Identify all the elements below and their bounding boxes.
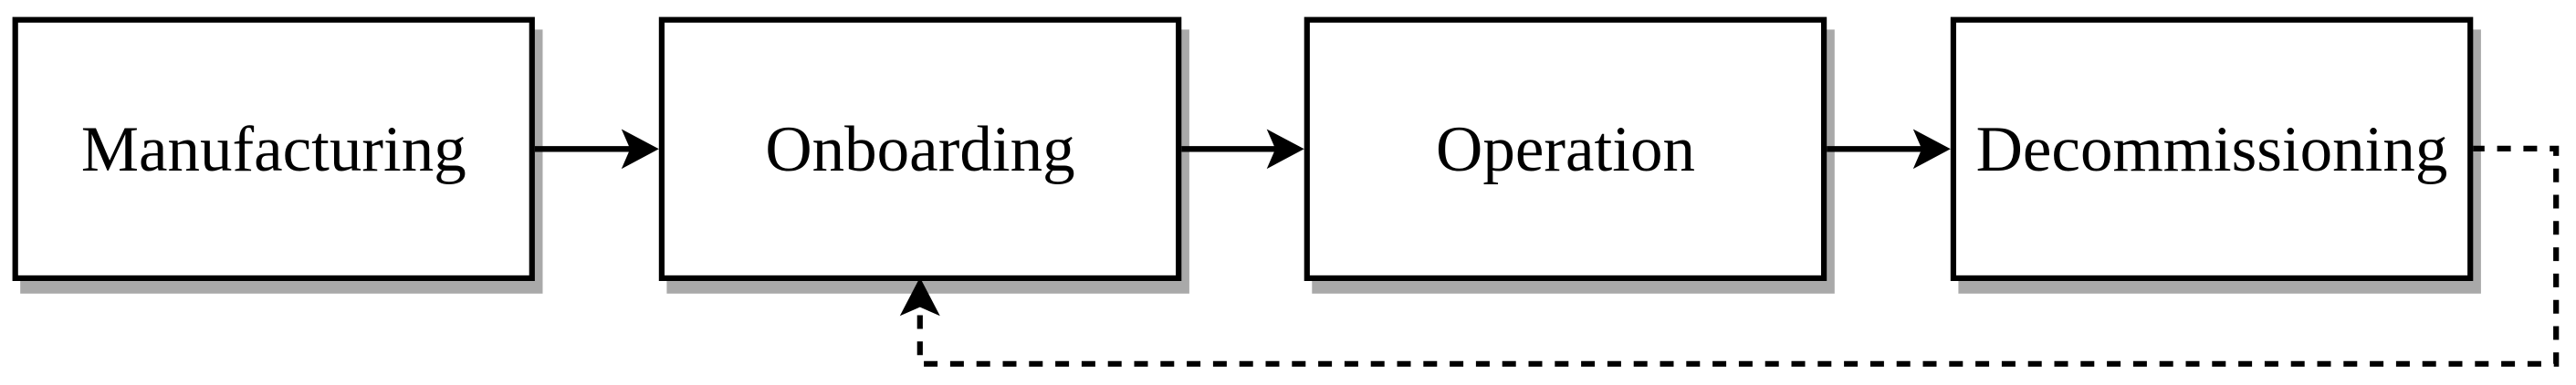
box Decommissioning	[1953, 20, 2470, 278]
box Manufacturing	[16, 20, 532, 278]
arrow Operation to Decommissioning : shaft	[1827, 146, 1935, 151]
shadow of Manufacturing box	[20, 29, 542, 293]
svg-text:Operation: Operation	[1436, 114, 1695, 185]
shadow of Decommissioning box	[1958, 29, 2481, 293]
svg-text:Manufacturing: Manufacturing	[81, 114, 466, 185]
svg-text:Onboarding: Onboarding	[765, 114, 1074, 185]
arrow Manufacturing to Onboarding : head	[622, 130, 659, 170]
arrow Manufacturing to Onboarding : shaft	[535, 146, 644, 151]
box Onboarding	[662, 20, 1178, 278]
shadow of Operation box	[1312, 29, 1835, 293]
box Operation	[1307, 20, 1824, 278]
feedback arrowhead into Onboarding bottom	[900, 277, 940, 316]
arrow Onboarding to Operation : shaft	[1181, 146, 1290, 151]
shadow of Onboarding box	[666, 29, 1189, 293]
dashed feedback wire Decommissioning to Onboarding	[920, 149, 2556, 364]
svg-text:Decommissioning: Decommissioning	[1976, 114, 2448, 185]
arrow Onboarding to Operation : head	[1267, 130, 1304, 170]
arrow Operation to Decommissioning : head	[1913, 130, 1951, 170]
